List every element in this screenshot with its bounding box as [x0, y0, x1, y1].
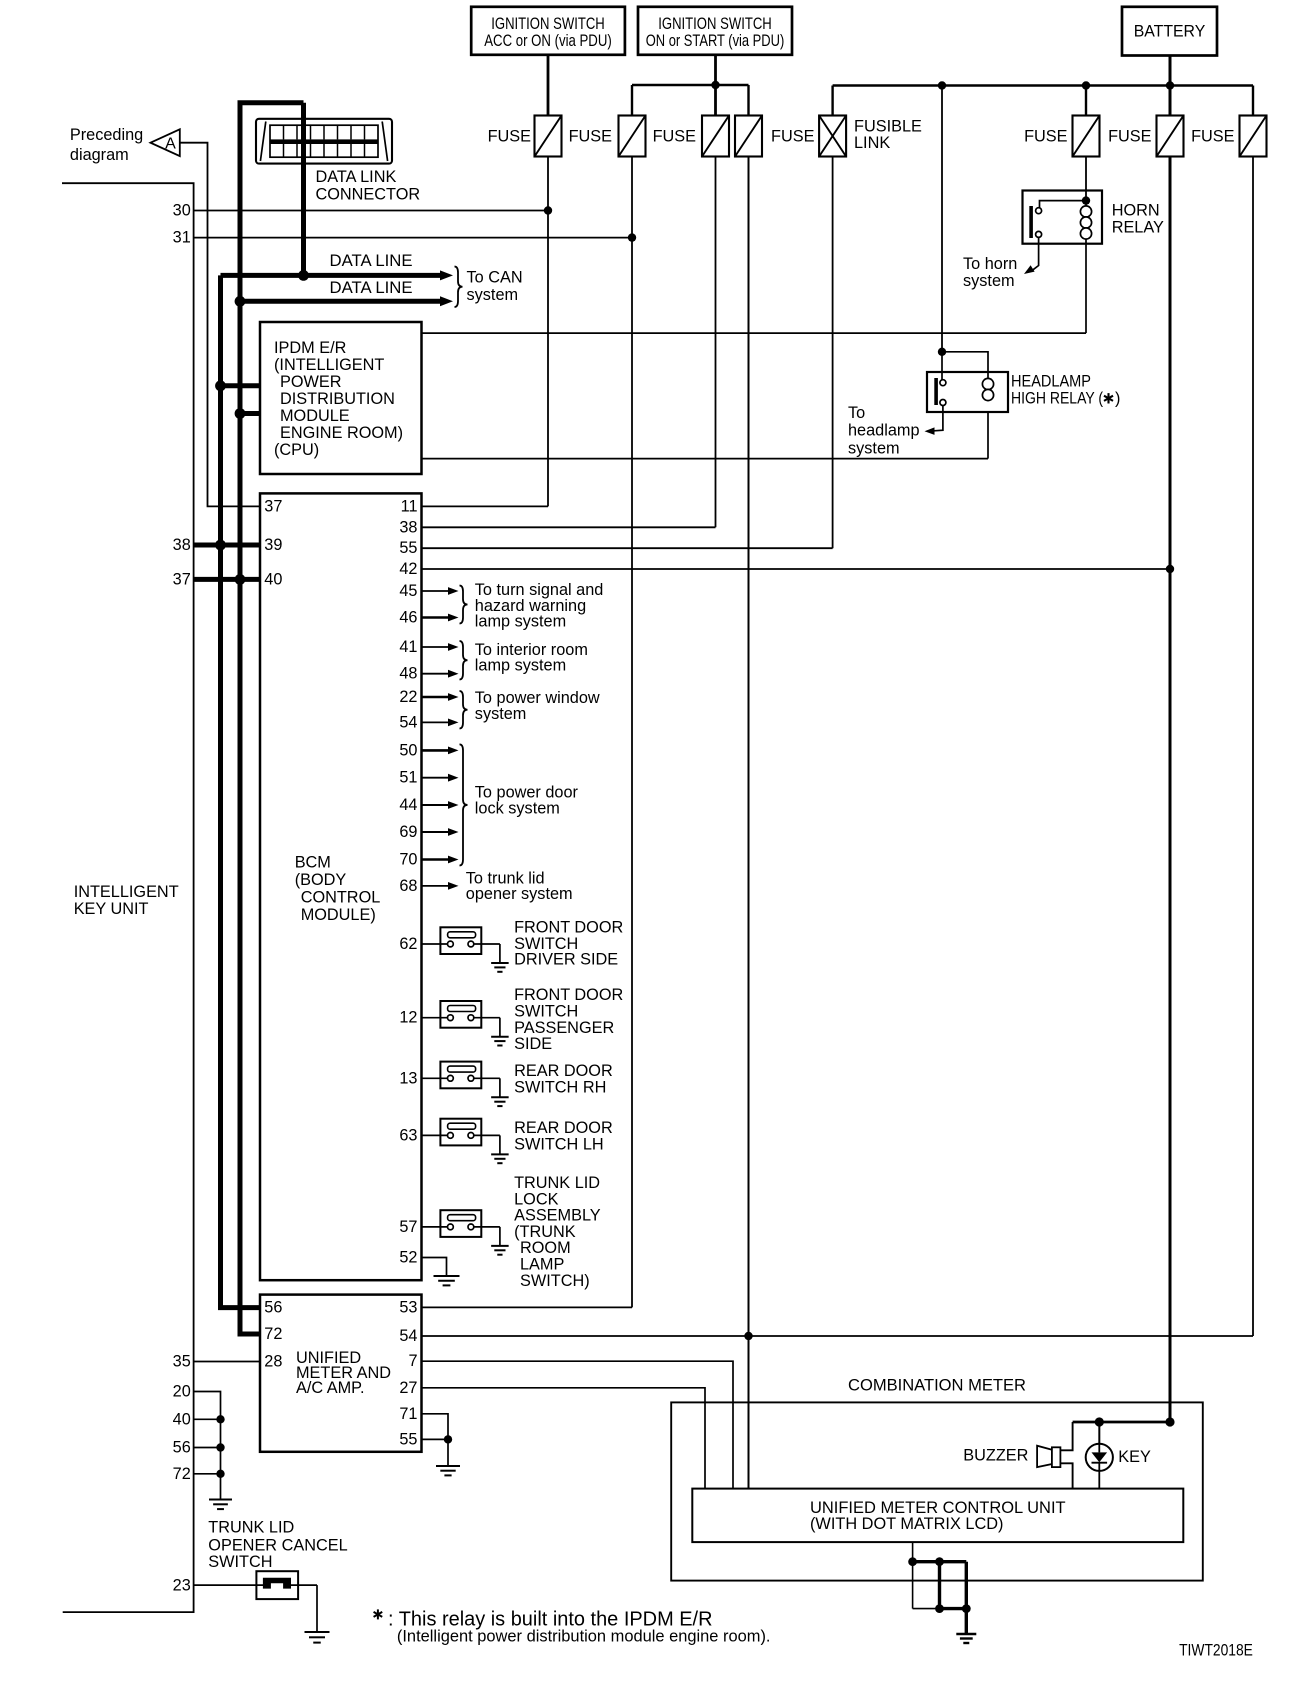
svg-text:IGNITION SWITCH: IGNITION SWITCH — [491, 15, 605, 33]
svg-text:REAR DOOR: REAR DOOR — [514, 1119, 613, 1137]
svg-text:(BODY: (BODY — [295, 871, 347, 889]
svg-text:KEY: KEY — [1118, 1448, 1151, 1466]
svg-text:7: 7 — [408, 1352, 417, 1370]
svg-text:28: 28 — [264, 1353, 282, 1371]
svg-text:POWER: POWER — [280, 373, 342, 391]
svg-text:40: 40 — [264, 570, 282, 588]
svg-text:ENGINE ROOM): ENGINE ROOM) — [280, 424, 403, 442]
svg-text:SWITCH: SWITCH — [514, 1003, 578, 1021]
svg-text:FUSE: FUSE — [1024, 127, 1068, 145]
svg-text:BUZZER: BUZZER — [963, 1446, 1028, 1464]
svg-text:To CAN: To CAN — [467, 269, 523, 287]
svg-text:system: system — [848, 439, 900, 457]
svg-text:MODULE: MODULE — [280, 407, 350, 425]
svg-text:A/C AMP.: A/C AMP. — [296, 1379, 364, 1397]
svg-text:ASSEMBLY: ASSEMBLY — [514, 1207, 601, 1225]
svg-text:diagram: diagram — [70, 146, 129, 164]
svg-text:SWITCH): SWITCH) — [520, 1272, 590, 1290]
svg-text:UNIFIED METER CONTROL UNIT: UNIFIED METER CONTROL UNIT — [810, 1499, 1066, 1517]
svg-text:70: 70 — [399, 851, 417, 869]
svg-text:27: 27 — [399, 1379, 417, 1397]
svg-text:FUSE: FUSE — [1108, 127, 1152, 145]
svg-text:23: 23 — [173, 1576, 191, 1594]
svg-text:DATA LINE: DATA LINE — [330, 252, 413, 270]
svg-text:system: system — [963, 272, 1015, 290]
svg-text:Preceding: Preceding — [70, 126, 143, 144]
svg-text:56: 56 — [173, 1439, 191, 1457]
svg-text:69: 69 — [399, 823, 417, 841]
svg-text:ON or START (via PDU): ON or START (via PDU) — [646, 32, 785, 50]
svg-text:DATA LINK: DATA LINK — [316, 168, 397, 186]
svg-text:46: 46 — [399, 609, 417, 627]
svg-text:30: 30 — [173, 202, 191, 220]
svg-text:20: 20 — [173, 1383, 191, 1401]
svg-text:FUSE: FUSE — [771, 127, 815, 145]
svg-text:SWITCH: SWITCH — [208, 1553, 272, 1571]
svg-text:MODULE): MODULE) — [301, 906, 376, 924]
svg-text:54: 54 — [399, 713, 417, 731]
svg-text:45: 45 — [399, 582, 417, 600]
svg-text:71: 71 — [399, 1405, 417, 1423]
svg-text:37: 37 — [173, 570, 191, 588]
svg-text:68: 68 — [399, 877, 417, 895]
svg-text:HIGH RELAY (: HIGH RELAY ( — [1011, 390, 1103, 408]
svg-text:44: 44 — [399, 796, 417, 814]
svg-text:IPDM E/R: IPDM E/R — [274, 339, 346, 357]
svg-text:(INTELLIGENT: (INTELLIGENT — [274, 356, 384, 374]
svg-text:lamp system: lamp system — [475, 657, 566, 675]
svg-text:42: 42 — [399, 560, 417, 578]
svg-text:38: 38 — [399, 518, 417, 536]
svg-text:12: 12 — [399, 1009, 417, 1027]
svg-text:opener system: opener system — [466, 885, 573, 903]
svg-text:37: 37 — [264, 497, 282, 515]
svg-text:lock system: lock system — [475, 799, 560, 817]
svg-text:(Intelligent power distributio: (Intelligent power distribution module e… — [397, 1627, 771, 1646]
svg-text:13: 13 — [399, 1069, 417, 1087]
svg-text:system: system — [475, 705, 527, 723]
svg-text:50: 50 — [399, 741, 417, 759]
svg-text:FUSE: FUSE — [653, 127, 697, 145]
svg-text:LINK: LINK — [854, 134, 890, 152]
svg-text:IGNITION SWITCH: IGNITION SWITCH — [658, 15, 772, 33]
svg-text:TRUNK LID: TRUNK LID — [514, 1174, 600, 1192]
svg-text:CONNECTOR: CONNECTOR — [316, 185, 421, 203]
svg-text:lamp system: lamp system — [475, 613, 566, 631]
svg-text:CONTROL: CONTROL — [301, 888, 381, 906]
svg-text:11: 11 — [401, 497, 418, 515]
svg-text:52: 52 — [399, 1249, 417, 1267]
svg-text:54: 54 — [399, 1327, 417, 1345]
svg-text:SWITCH LH: SWITCH LH — [514, 1136, 604, 1154]
svg-text:(WITH DOT MATRIX LCD): (WITH DOT MATRIX LCD) — [810, 1515, 1004, 1533]
svg-text:38: 38 — [173, 536, 191, 554]
svg-text:(TRUNK: (TRUNK — [514, 1223, 576, 1241]
svg-text:62: 62 — [399, 935, 417, 953]
svg-text:HORN: HORN — [1112, 201, 1160, 219]
svg-text:SWITCH RH: SWITCH RH — [514, 1079, 606, 1097]
svg-text:48: 48 — [399, 665, 417, 683]
svg-text:system: system — [467, 286, 519, 304]
svg-text:FUSIBLE: FUSIBLE — [854, 118, 922, 136]
svg-text:): ) — [1115, 390, 1120, 408]
svg-text:LOCK: LOCK — [514, 1190, 558, 1208]
svg-text:35: 35 — [173, 1353, 191, 1371]
svg-text:FRONT DOOR: FRONT DOOR — [514, 986, 623, 1004]
svg-text:53: 53 — [399, 1298, 417, 1316]
svg-text:40: 40 — [173, 1410, 191, 1428]
svg-text:31: 31 — [173, 229, 191, 247]
svg-text:41: 41 — [399, 638, 417, 656]
svg-text:22: 22 — [399, 688, 417, 706]
svg-text:BCM: BCM — [295, 854, 331, 872]
svg-text:RELAY: RELAY — [1112, 218, 1164, 236]
svg-text:FRONT DOOR: FRONT DOOR — [514, 919, 623, 937]
svg-text:A: A — [165, 136, 176, 153]
svg-text:To: To — [848, 404, 865, 422]
svg-text:FUSE: FUSE — [569, 127, 613, 145]
svg-text:55: 55 — [399, 539, 417, 557]
svg-text:HEADLAMP: HEADLAMP — [1011, 372, 1091, 390]
svg-text:39: 39 — [264, 536, 282, 554]
svg-text:INTELLIGENT: INTELLIGENT — [74, 883, 179, 901]
svg-text:headlamp: headlamp — [848, 422, 920, 440]
svg-text:BATTERY: BATTERY — [1134, 23, 1206, 41]
svg-text:72: 72 — [173, 1465, 191, 1483]
svg-text:FUSE: FUSE — [488, 127, 532, 145]
svg-text:FUSE: FUSE — [1191, 127, 1235, 145]
svg-text:ACC or ON (via PDU): ACC or ON (via PDU) — [484, 32, 612, 50]
svg-text:DATA LINE: DATA LINE — [330, 279, 413, 297]
svg-text:TRUNK LID: TRUNK LID — [208, 1519, 294, 1537]
svg-text:55: 55 — [399, 1430, 417, 1448]
svg-text:72: 72 — [264, 1325, 282, 1343]
svg-text:KEY UNIT: KEY UNIT — [74, 900, 149, 918]
svg-text:SIDE: SIDE — [514, 1035, 552, 1053]
svg-text:TIWT2018E: TIWT2018E — [1179, 1642, 1253, 1660]
svg-text:ROOM: ROOM — [520, 1239, 571, 1257]
svg-text:DRIVER SIDE: DRIVER SIDE — [514, 951, 618, 969]
svg-text:56: 56 — [264, 1299, 282, 1317]
svg-text:COMBINATION METER: COMBINATION METER — [848, 1377, 1026, 1395]
svg-text:DISTRIBUTION: DISTRIBUTION — [280, 390, 395, 408]
svg-text:REAR DOOR: REAR DOOR — [514, 1062, 613, 1080]
svg-text:(CPU): (CPU) — [274, 441, 319, 459]
svg-text:63: 63 — [399, 1126, 417, 1144]
svg-text:LAMP: LAMP — [520, 1256, 564, 1274]
svg-text:To horn: To horn — [963, 255, 1017, 273]
svg-text:57: 57 — [399, 1218, 417, 1236]
svg-text:51: 51 — [399, 769, 417, 787]
